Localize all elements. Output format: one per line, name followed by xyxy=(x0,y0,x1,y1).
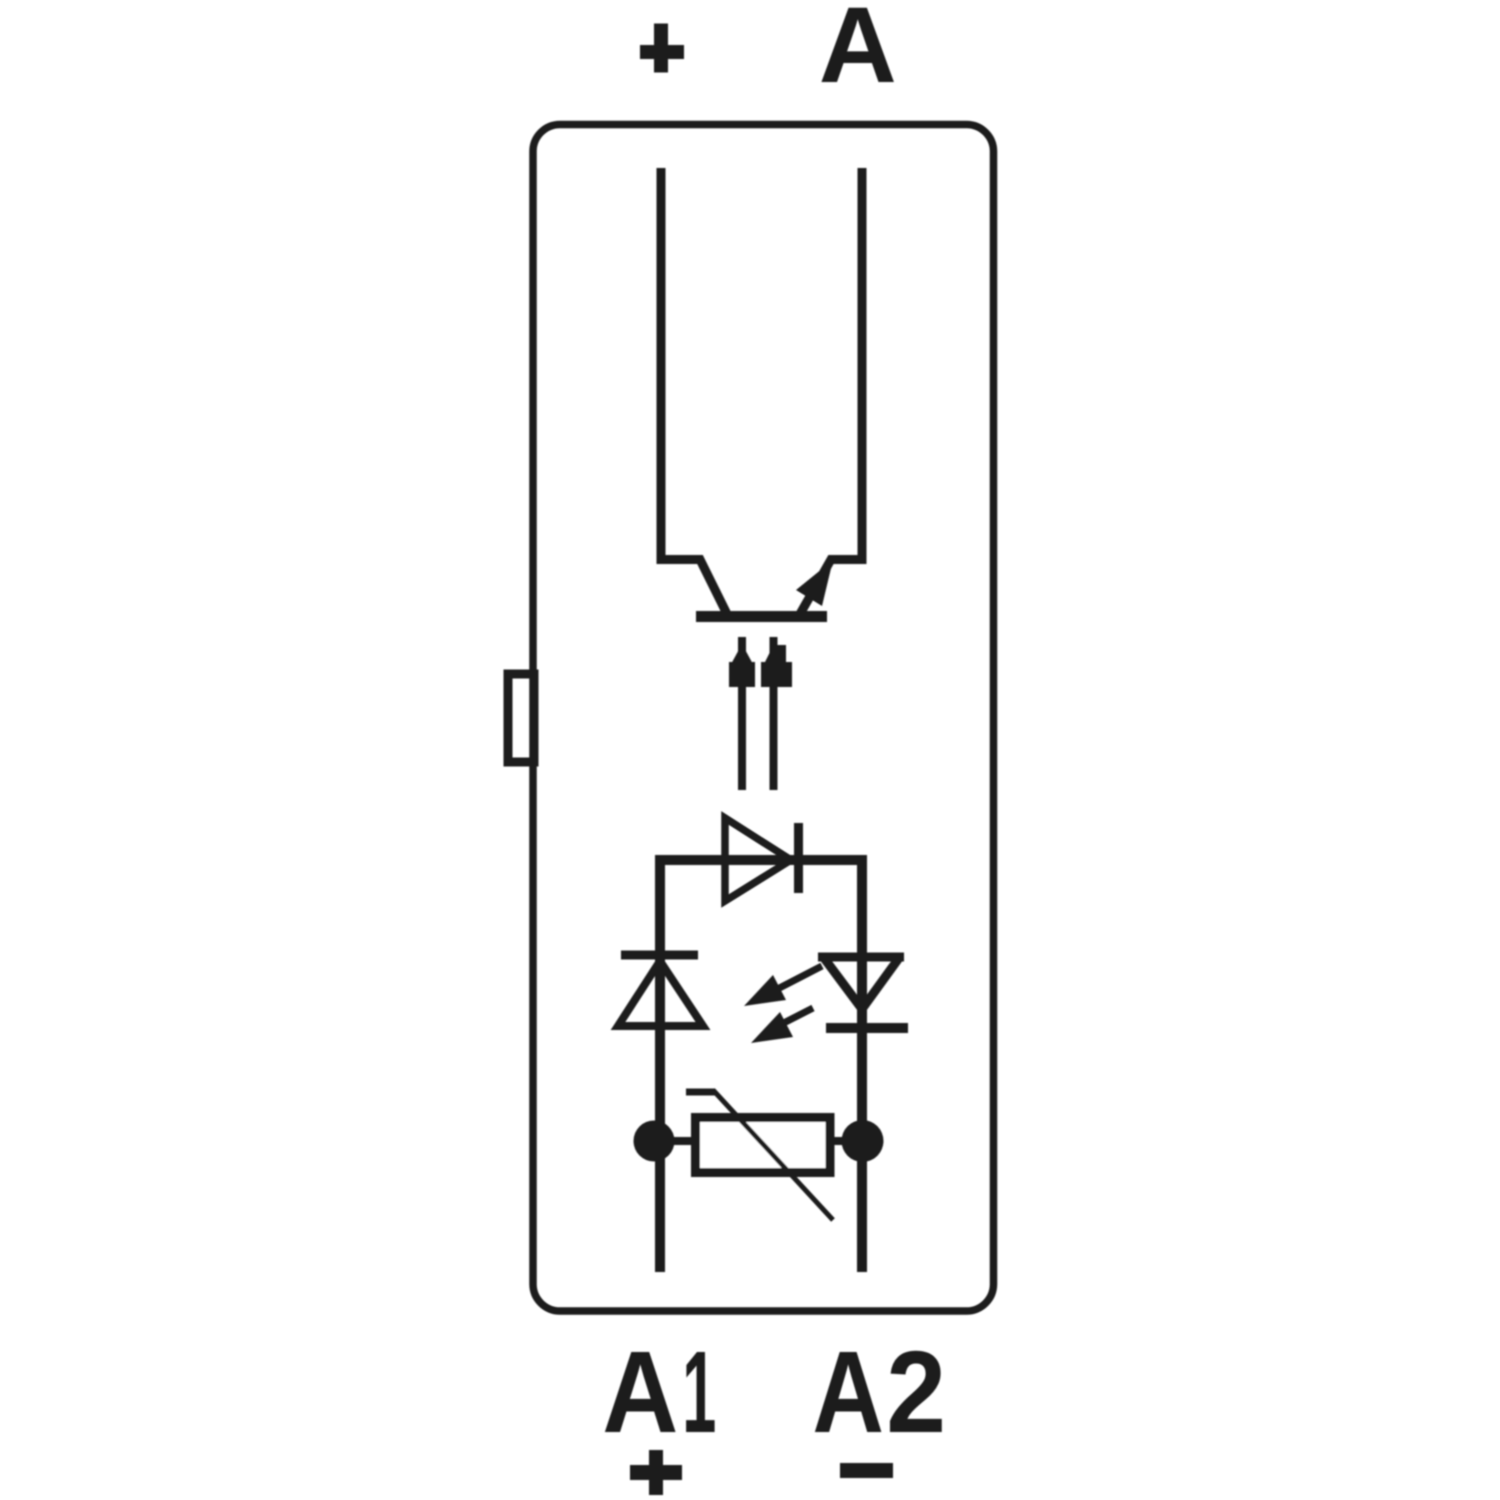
svg-text:2: 2 xyxy=(886,1327,946,1457)
svg-text:1: 1 xyxy=(682,1327,716,1457)
svg-text:A: A xyxy=(602,1328,678,1457)
svg-text:A: A xyxy=(819,0,897,105)
svg-text:A: A xyxy=(812,1327,884,1457)
